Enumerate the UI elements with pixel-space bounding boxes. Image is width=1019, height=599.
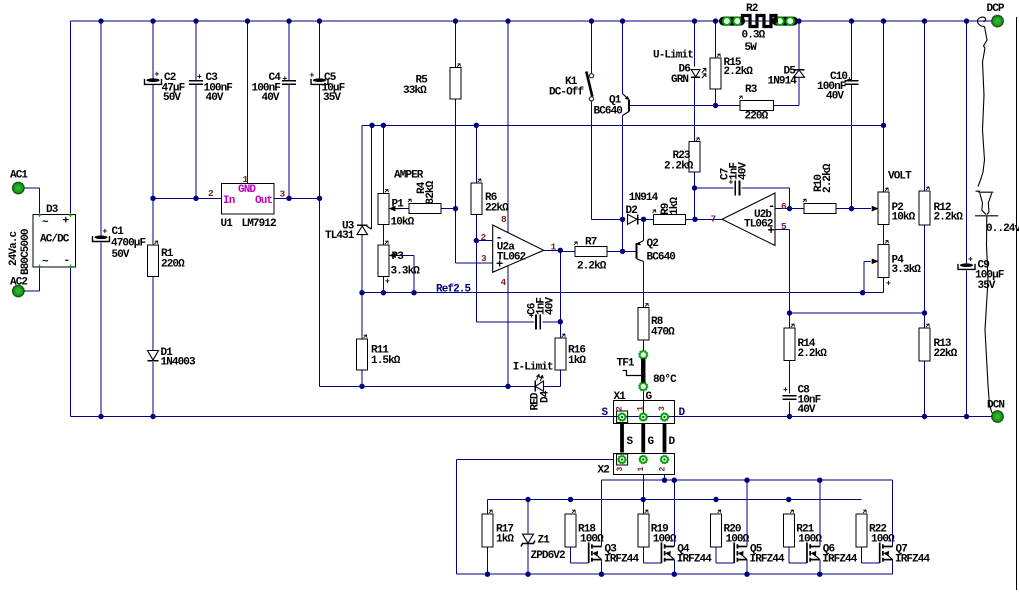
svg-text:5W: 5W: [745, 42, 758, 54]
capacitor C1 4700uF: [93, 226, 146, 261]
potentiometer P1 10k: [378, 189, 415, 228]
svg-text:TL062: TL062: [497, 251, 526, 263]
wire AC1 lead: [24, 188, 40, 215]
junction D2 cathode/Q2 emitter: [641, 217, 646, 222]
junction top bus x=924.5: [922, 18, 927, 23]
junction top bus x=966.5: [964, 18, 969, 23]
resistor R9 1k: [653, 197, 686, 225]
junction Ref rail (414,293): [411, 290, 416, 295]
svg-text:+: +: [783, 386, 788, 395]
junction R9/R23/U2b out: [692, 217, 697, 222]
svg-text:TL431: TL431: [325, 230, 355, 242]
junction top bus x=799: [796, 18, 801, 23]
label 0..24v: [986, 223, 1019, 235]
svg-text:2.2kΩ: 2.2kΩ: [798, 348, 828, 360]
wire U2a output stub: [544, 249, 561, 251]
wire Z1 column: [527, 500, 529, 575]
wire C4 column: [288, 21, 290, 198]
capacitor C8 10nF: [783, 385, 821, 417]
resistor R12 2.2k: [919, 187, 963, 225]
svg-text:Q2: Q2: [647, 238, 659, 250]
junction Q1 base/R15/R3: [713, 103, 718, 108]
wire Q2 emitter riser: [643, 219, 645, 240]
wire V- drop from U1 Out: [319, 198, 321, 386]
wire left D3 plus riser: [70, 21, 72, 214]
wire X1 D pad to right: [675, 416, 992, 418]
wire U1 Out row: [274, 197, 320, 199]
connector X2: [598, 454, 675, 477]
junction U2b pin6 node: [787, 206, 792, 211]
junction sense bus x=372: [369, 123, 374, 128]
wire U2a pin4 column: [507, 266, 509, 387]
svg-text:100Ω: 100Ω: [580, 534, 604, 546]
wire source bus: [457, 573, 893, 575]
resistor R15 2.2k: [710, 54, 753, 89]
mosfet Q6 IRFZ44: [789, 480, 858, 574]
wire P3 bottom: [382, 277, 384, 293]
op-amp U2a TL062: [481, 214, 557, 288]
svg-text:0.3Ω: 0.3Ω: [742, 30, 766, 42]
mosfet Q7 IRFZ44: [862, 480, 931, 574]
svg-text:P1: P1: [392, 199, 405, 211]
junction sense bus x=476.3: [474, 123, 479, 128]
connector X1: [602, 391, 686, 424]
svg-text:+: +: [197, 73, 202, 82]
junction Ref rail (362,293): [359, 290, 364, 295]
svg-text:U1: U1: [221, 218, 234, 230]
thermal switch TF1 80C: [617, 350, 678, 391]
svg-text:RED: RED: [530, 392, 542, 410]
wire C7 right drop to pin6: [789, 188, 791, 209]
svg-text:IRFZ44: IRFZ44: [750, 554, 786, 566]
junction U1 row (196,198): [193, 196, 198, 201]
junction source bus x=747: [744, 572, 749, 577]
wire P2-P4 link: [883, 225, 885, 245]
svg-text:22kΩ: 22kΩ: [485, 203, 509, 215]
svg-text:4: 4: [501, 277, 507, 288]
wire C2 / R1 / D1 column: [152, 21, 154, 416]
svg-text:100Ω: 100Ω: [798, 534, 822, 546]
led D6 GRN: [671, 64, 706, 87]
wire R14 column: [789, 313, 791, 417]
cable X1-X2 G: [643, 424, 654, 453]
svg-text:+: +: [385, 278, 390, 287]
wire C3 column: [195, 21, 197, 198]
svg-text:C1: C1: [112, 226, 125, 238]
resistor R10 2.2k: [803, 163, 836, 213]
svg-text:1: 1: [551, 242, 557, 253]
svg-text:2.2kΩ: 2.2kΩ: [664, 161, 694, 173]
resistor R18 100: [565, 510, 604, 547]
wire output to R7: [560, 250, 575, 252]
wire P1-P3 link: [382, 225, 384, 246]
svg-text:+: +: [283, 75, 288, 84]
junction top bus x=715.5: [713, 18, 718, 23]
svg-text:D2: D2: [626, 205, 638, 217]
svg-text:5: 5: [781, 221, 787, 232]
wire X2 S pad row to left: [457, 459, 614, 461]
wire AC2 lead: [24, 267, 40, 291]
junction bottom bus x=966.5: [964, 414, 969, 419]
junction bottom bus x=153: [150, 414, 155, 419]
svg-text:35V: 35V: [323, 92, 341, 104]
junction top bus x=455.5: [453, 18, 458, 23]
wire D5 top riser: [798, 21, 800, 70]
svg-text:35V: 35V: [978, 280, 996, 292]
resistor R3 220: [739, 84, 774, 123]
wire gate bus: [488, 499, 862, 501]
wire D2 cathode to R9: [639, 218, 654, 220]
wire P3 wiper bend: [390, 255, 414, 292]
junction drain bus x=747: [744, 478, 749, 483]
svg-text:40V: 40V: [738, 162, 750, 180]
resistor R20 100: [711, 510, 750, 547]
svg-text:X2: X2: [598, 465, 610, 477]
wire R4 right to junction: [441, 208, 456, 210]
wire R5 column: [455, 21, 457, 209]
junction R4/R5/pin3 node: [453, 206, 458, 211]
svg-text:40V: 40V: [262, 92, 280, 104]
wire pin2 node down to C6: [476, 241, 534, 322]
wire R12 column: [924, 21, 926, 313]
label VOLT: [888, 171, 912, 183]
wire R15 column: [715, 21, 717, 105]
cable X1-X2 D: [665, 424, 676, 453]
svg-text:+: +: [310, 71, 315, 80]
svg-text:1kΩ: 1kΩ: [669, 197, 681, 215]
svg-text:BC640: BC640: [594, 106, 623, 118]
svg-text:+: +: [155, 70, 160, 79]
junction top bus x=196: [193, 18, 198, 23]
svg-text:1N4003: 1N4003: [161, 357, 197, 369]
junction top bus x=622.5: [620, 18, 625, 23]
svg-text:2: 2: [616, 406, 625, 411]
wire Q1 emitter riser: [622, 21, 624, 93]
svg-text:I-Limit: I-Limit: [513, 362, 553, 374]
capacitor C10 100nF: [817, 71, 859, 103]
potentiometer P4 3.3k: [878, 241, 921, 289]
label U-Limit: [653, 50, 693, 62]
resistor R21 100: [783, 510, 822, 547]
svg-text:1N914: 1N914: [768, 76, 798, 88]
svg-text:ZPD6V2: ZPD6V2: [531, 550, 566, 562]
svg-text:AC1: AC1: [10, 170, 28, 182]
junction bottom bus x=924.5: [922, 414, 927, 419]
svg-text:3: 3: [280, 189, 286, 200]
led D4 RED I-Limit: [513, 362, 561, 411]
wire X2 G drop to gate bus: [642, 475, 644, 515]
svg-text:50V: 50V: [163, 92, 181, 104]
resistor R2 0.3R 5W: [719, 3, 798, 54]
junction top bus x=101: [98, 18, 103, 23]
scan border right edge: [1016, 17, 1018, 590]
wire U1 pin1 column: [247, 21, 249, 183]
hand-drawn annotation wire: [975, 17, 998, 413]
svg-text:22kΩ: 22kΩ: [934, 348, 958, 360]
svg-text:In: In: [223, 195, 235, 207]
wire TL431 anode to Ref rail: [361, 235, 363, 293]
junction top bus x=153: [150, 18, 155, 23]
svg-text:DC-Off: DC-Off: [549, 87, 585, 99]
junction drain bus x=819.75: [817, 478, 822, 483]
svg-text:1: 1: [637, 467, 646, 472]
junction V- rail (362,386): [359, 384, 364, 389]
wire R6 top riser: [475, 125, 477, 183]
wire P1 top riser: [382, 125, 384, 193]
potentiometer P3 3.3k: [378, 241, 420, 287]
resistor R13 22k: [919, 324, 958, 361]
svg-text:3.3kΩ: 3.3kΩ: [892, 264, 922, 276]
svg-text:100Ω: 100Ω: [871, 534, 895, 546]
wire R3 right to D5: [774, 77, 800, 106]
wire R16 column: [559, 322, 561, 387]
junction Ref rail (383.4,293): [381, 290, 386, 295]
junction top bus x=289: [286, 18, 291, 23]
junction sense bus x=383.4: [381, 123, 386, 128]
svg-text:DCP: DCP: [987, 3, 1005, 15]
svg-text:TL062: TL062: [744, 219, 773, 231]
junction pin2 node: [474, 238, 479, 243]
wire P1 wiper to R4: [389, 207, 409, 211]
capacitor C5 10uF: [310, 71, 345, 104]
diode D5 1N914: [768, 66, 805, 88]
resistor R7 2.2k: [574, 237, 607, 273]
terminal DCP: [987, 3, 1005, 27]
transistor Q2 BC640: [637, 238, 676, 264]
junction pin5/R12/R13/R14: [787, 310, 927, 315]
svg-text:+: +: [968, 255, 973, 264]
svg-text:80°C: 80°C: [653, 374, 677, 386]
wire U2a pin2 stub: [476, 240, 492, 242]
svg-text:+: +: [103, 228, 108, 237]
svg-text:GRN: GRN: [671, 74, 688, 86]
mosfet Q4 IRFZ44: [643, 480, 712, 574]
junction bottom bus x=789.5: [787, 414, 792, 419]
label AMPER: [394, 170, 424, 182]
svg-text:24Va.c: 24Va.c: [8, 231, 20, 266]
svg-text:Out: Out: [255, 195, 272, 207]
junction R7/Q2 base: [620, 249, 625, 254]
svg-text:50V: 50V: [112, 249, 130, 261]
junction top bus x=319.5: [317, 18, 322, 23]
svg-text:-: -: [64, 255, 70, 267]
mosfet Q3 IRFZ44: [571, 480, 640, 574]
svg-text:2.2kΩ: 2.2kΩ: [577, 261, 607, 273]
junction R10/C10/P2 wiper: [849, 206, 854, 211]
svg-text:7: 7: [711, 214, 717, 225]
svg-text:1: 1: [243, 174, 249, 185]
wire left D3 minus drop: [70, 267, 72, 417]
op-amp U2b TL062: [711, 193, 788, 246]
svg-text:100Ω: 100Ω: [653, 534, 677, 546]
switch K1 DC-Off: [549, 72, 594, 101]
svg-text:IRFZ44: IRFZ44: [604, 554, 640, 566]
svg-text:2.2kΩ: 2.2kΩ: [934, 212, 964, 224]
wire P2 wiper arrow: [852, 207, 878, 211]
svg-text:TF1: TF1: [617, 358, 635, 370]
wire X2 S left drop: [456, 460, 458, 575]
capacitor C9 100uF: [958, 255, 1004, 292]
wire Q2 collector to R8: [643, 262, 645, 308]
wire Q1 collector / D2 anode column: [622, 116, 624, 252]
resistor R5 33k: [403, 64, 461, 99]
svg-text:3.3kΩ: 3.3kΩ: [391, 266, 421, 278]
svg-text:6: 6: [781, 201, 787, 212]
wire sense bus y125: [362, 124, 884, 126]
junction R23/C7: [692, 185, 697, 190]
resistor R1 220: [148, 241, 186, 277]
junction bottom bus x=101: [98, 414, 103, 419]
junction source bus x=819.75: [817, 572, 822, 577]
wire TL431 cathode bend: [361, 125, 363, 225]
wire R6 bottom to pin2: [475, 215, 477, 241]
svg-text:VOLT: VOLT: [888, 171, 912, 183]
capacitor C3 100nF: [189, 72, 232, 104]
svg-text:3: 3: [481, 253, 487, 264]
svg-text:U-Limit: U-Limit: [653, 50, 693, 62]
regulator U1 LM7912: [208, 174, 286, 230]
wire bottom negative bus (D3- to DCN): [71, 416, 992, 418]
wire R11 column: [361, 293, 363, 387]
wire R17 column: [487, 500, 489, 575]
svg-text:2: 2: [659, 467, 668, 472]
junction drain bus x=674.25: [672, 478, 677, 483]
resistor R4 82k: [408, 180, 441, 213]
svg-text:AMPER: AMPER: [394, 170, 424, 182]
junction top bus x=508: [505, 18, 510, 23]
junction source bus x=487.5: [485, 572, 490, 577]
svg-text:40V: 40V: [798, 404, 816, 416]
svg-text:AC/DC: AC/DC: [40, 234, 70, 246]
svg-text:470Ω: 470Ω: [651, 327, 675, 339]
svg-text:LM7912: LM7912: [242, 218, 277, 230]
svg-text:R7: R7: [585, 237, 597, 249]
wire U2b pin6 stub: [775, 208, 804, 210]
junction top bus x=591.5: [589, 18, 594, 23]
shunt ref U3 TL431: [325, 221, 372, 243]
resistor R8 470: [638, 304, 675, 341]
junction source bus x=528: [525, 572, 530, 577]
svg-text:R2: R2: [746, 3, 758, 15]
wire R8 to TF1: [643, 340, 645, 351]
svg-text:Z1: Z1: [538, 535, 551, 547]
wire K1 top riser: [591, 21, 593, 73]
junction gate bus x=528: [525, 497, 530, 502]
svg-text:2.2kΩ: 2.2kΩ: [822, 163, 834, 193]
wire C10 column: [851, 21, 853, 209]
svg-text:+: +: [847, 76, 852, 85]
junction gate bus x=716: [713, 497, 718, 502]
svg-text:BC640: BC640: [647, 252, 676, 264]
svg-text:IRFZ44: IRFZ44: [677, 554, 713, 566]
wire C5 column: [319, 21, 321, 198]
wire TF1 to X1 G pad: [642, 391, 644, 418]
capacitor C4 100nF: [252, 72, 297, 104]
transistor Q1 BC640: [594, 94, 630, 118]
wire U1 In row: [153, 197, 222, 199]
terminal AC1: [10, 170, 28, 194]
svg-text:2: 2: [481, 232, 487, 243]
wire V- rail: [320, 385, 561, 387]
svg-text:IRFZ44: IRFZ44: [822, 554, 858, 566]
wire U2a pin8 supply column: [507, 21, 509, 232]
mosfet Q5 IRFZ44: [716, 480, 785, 574]
svg-text:2: 2: [208, 188, 214, 199]
junction V- rail (508,386): [505, 384, 510, 389]
wire top positive bus (D3+ to DCP): [71, 20, 992, 22]
junction top bus x=694.5: [692, 18, 697, 23]
svg-text:+: +: [886, 280, 891, 289]
wire R13 column: [924, 313, 926, 417]
junction drain bus x=664.5: [662, 478, 667, 483]
wire C1 column: [100, 21, 102, 416]
junction sense bus x=883.5: [881, 123, 886, 128]
svg-text:4700µF: 4700µF: [111, 238, 146, 250]
wire Q1 base row: [629, 105, 716, 107]
junction source bus x=674.25: [672, 572, 677, 577]
diode D1 1N4003: [148, 347, 197, 369]
junction Ref rail (862.6,293): [860, 290, 865, 295]
wire feedback row y313: [790, 312, 925, 314]
svg-text:1.5kΩ: 1.5kΩ: [371, 355, 401, 367]
svg-text:100Ω: 100Ω: [726, 534, 750, 546]
wire P2 top riser: [883, 21, 885, 192]
wire C8 below R14: [789, 402, 791, 417]
wire drain bus: [602, 479, 893, 481]
wire P4 bottom bend: [883, 278, 885, 293]
resistor R23 2.2k: [664, 138, 700, 173]
junction source bus x=601.5: [599, 572, 604, 577]
label B80C5000: [20, 229, 32, 275]
resistor R19 100: [638, 510, 677, 547]
resistor R22 100: [856, 510, 895, 547]
svg-text:R3: R3: [745, 84, 758, 96]
wire R3 row: [716, 105, 741, 107]
rectifier D3 B80C5000: [33, 204, 76, 269]
svg-text:33kΩ: 33kΩ: [403, 85, 427, 97]
wire R7 right to Q2 base: [607, 250, 637, 252]
wire Ref2.5 rail: [362, 292, 884, 294]
svg-text:8: 8: [501, 214, 507, 225]
junction top bus x=247.5: [245, 18, 250, 23]
svg-text:X1: X1: [614, 391, 627, 403]
wire X1 left bus into S pad: [71, 416, 615, 418]
svg-text:2.2kΩ: 2.2kΩ: [724, 66, 754, 78]
svg-text:220Ω: 220Ω: [161, 259, 185, 271]
svg-text:10kΩ: 10kΩ: [391, 217, 415, 229]
resistor R14 2.2k: [784, 324, 827, 361]
wire R23 bottom to C7 node: [694, 172, 696, 219]
svg-text:GND: GND: [238, 184, 256, 196]
svg-text:82kΩ: 82kΩ: [425, 180, 437, 204]
svg-text:1N914: 1N914: [629, 192, 659, 204]
wire C7 row: [695, 187, 790, 189]
cable X1-X2 S: [622, 424, 634, 453]
junction gate bus x=643.25: [641, 497, 646, 502]
wire R10 row: [836, 208, 852, 210]
svg-text:1kΩ: 1kΩ: [496, 534, 514, 546]
svg-text:AC2: AC2: [10, 277, 27, 289]
svg-text:Ref2.5: Ref2.5: [436, 284, 472, 296]
capacitor C7 1nF: [720, 162, 750, 196]
wire P4 wiper arrow: [864, 259, 877, 293]
terminal AC2: [10, 277, 27, 297]
capacitor C6 1nF: [527, 297, 557, 330]
svg-text:40V: 40V: [206, 92, 224, 104]
resistor R16 1k: [555, 334, 587, 370]
junction top bus x=851.5: [849, 18, 854, 23]
svg-text:B80C5000: B80C5000: [20, 229, 32, 275]
